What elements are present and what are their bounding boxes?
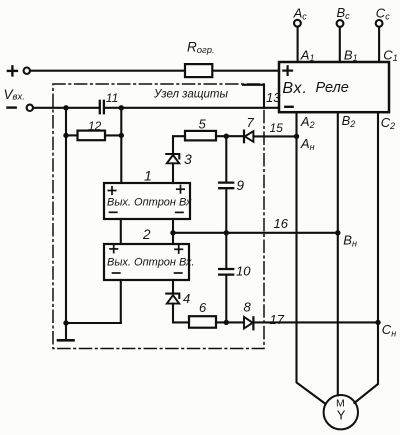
capacitor C11: [100, 101, 104, 113]
svg-text:4: 4: [183, 291, 190, 306]
terminal + (positive input): [8, 66, 30, 75]
optocoupler U1: [104, 183, 192, 219]
svg-text:Вн: Вн: [343, 232, 357, 248]
relay box: [279, 62, 389, 112]
node: junction ground tee: [63, 320, 68, 325]
node: junction R12 left: [63, 133, 68, 138]
svg-text:Y: Y: [337, 408, 346, 423]
svg-text:Ас: Ас: [293, 6, 308, 22]
svg-text:10: 10: [236, 264, 251, 279]
wire − rail left: [33, 107, 99, 109]
wire U1 to U2 left pins: [120, 219, 122, 244]
node: junction left rail / − rail: [63, 105, 68, 110]
wire + rail: [30, 70, 185, 72]
wire Сс to relay: [378, 27, 380, 62]
node: junction R12 right: [119, 133, 124, 138]
svg-text:С2: С2: [381, 115, 395, 131]
wire 16: [173, 232, 338, 234]
terminal Ас: [293, 6, 308, 27]
node: junction C9/C10: [224, 230, 229, 235]
capacitor C9: [219, 183, 233, 189]
svg-text:13: 13: [266, 90, 281, 105]
svg-text:А1: А1: [300, 47, 315, 63]
wire left rail vertical: [65, 108, 67, 323]
svg-text:11: 11: [106, 91, 118, 105]
node: junction Ан: [294, 134, 299, 139]
wire 15: [253, 135, 296, 137]
svg-text:5: 5: [199, 117, 207, 132]
wire U2 right pin to zener 4: [172, 280, 174, 293]
svg-text:12: 12: [88, 119, 102, 133]
wire phase B column: [337, 112, 339, 395]
zener diode 4: [166, 294, 179, 304]
terminal Вс: [337, 5, 351, 27]
svg-text:15: 15: [270, 121, 284, 135]
wire bottom left horizontal: [66, 322, 121, 324]
wire R12 right stub: [105, 134, 121, 136]
node: junction Вн: [335, 230, 340, 235]
wire U1 to U2 right pins: [172, 219, 174, 244]
node: junction C11 right: [119, 105, 124, 110]
zener diode 3: [166, 154, 179, 163]
resistor R6: [189, 316, 216, 328]
svg-text:16: 16: [274, 216, 289, 231]
svg-text:В1: В1: [344, 47, 358, 63]
svg-text:9: 9: [237, 178, 245, 193]
wire zener 4 down and over to R6: [173, 304, 189, 323]
ground: [58, 323, 74, 340]
wire U1 right pin to zener 3: [172, 164, 174, 184]
wire U2 left pin down: [120, 280, 122, 323]
svg-text:Реле: Реле: [316, 80, 349, 96]
wire Вс to relay: [339, 27, 341, 62]
wire R12 left stub: [66, 134, 78, 136]
node: junction U1/U2 right pins: [170, 230, 175, 235]
diode VD7: [244, 131, 253, 143]
terminal Сс: [376, 6, 390, 27]
resistor Rогр.: [185, 64, 212, 77]
svg-text:Узел защиты: Узел защиты: [153, 89, 229, 101]
svg-text:8: 8: [244, 300, 252, 315]
svg-text:Вых. Оптрон Вх: Вых. Оптрон Вх: [107, 197, 192, 209]
wire C10 branch upper: [225, 233, 227, 269]
svg-text:6: 6: [199, 300, 207, 315]
svg-text:3: 3: [184, 151, 192, 167]
motor M: [324, 395, 358, 429]
node: junction C10 bottom: [224, 320, 229, 325]
terminal − (Vвх input): [8, 105, 34, 111]
protection unit box (chain line): [53, 84, 264, 349]
svg-text:Вс: Вс: [337, 5, 351, 21]
wire zener 3 up and over to R5: [173, 136, 185, 154]
resistor R5: [185, 131, 216, 141]
svg-text:А2: А2: [300, 114, 315, 130]
node: junction Сн: [375, 320, 380, 325]
wire C9 branch lower: [225, 189, 227, 233]
wire + rail to relay: [213, 70, 280, 72]
wire C10 branch lower: [225, 275, 227, 322]
wire Ас to relay: [297, 27, 299, 62]
wire R6 to diode 8: [216, 321, 244, 323]
svg-text:Вх.: Вх.: [282, 80, 308, 97]
svg-text:Сн: Сн: [382, 322, 396, 338]
wire chain-box corner to pin 13: [243, 85, 264, 108]
resistor R12: [78, 131, 106, 141]
svg-text:В2: В2: [342, 113, 356, 129]
svg-text:Вых. Оптрон Вх.: Вых. Оптрон Вх.: [107, 257, 195, 269]
diode VD8: [244, 317, 253, 329]
svg-text:1: 1: [144, 168, 152, 184]
wire phase A column: [297, 112, 326, 403]
node: junction C9 top: [224, 134, 229, 139]
wire phase C column: [354, 112, 378, 403]
capacitor C10: [219, 269, 233, 275]
svg-text:2: 2: [142, 227, 151, 242]
wire R5 to diode 7: [216, 135, 244, 137]
svg-text:С1: С1: [383, 47, 397, 63]
svg-text:Сс: Сс: [376, 6, 390, 22]
optocoupler U2: [104, 244, 195, 280]
wire to optocoupler 1 left pin: [120, 108, 122, 183]
wire C9 branch upper: [225, 136, 227, 182]
svg-text:7: 7: [247, 115, 255, 130]
wire − rail to pin 13: [105, 107, 279, 109]
svg-text:Vвх.: Vвх.: [4, 87, 25, 103]
svg-text:Ан: Ан: [300, 136, 315, 152]
svg-text:17: 17: [270, 312, 285, 327]
svg-text:Rогр.: Rогр.: [187, 40, 215, 57]
wire 17: [254, 321, 379, 323]
